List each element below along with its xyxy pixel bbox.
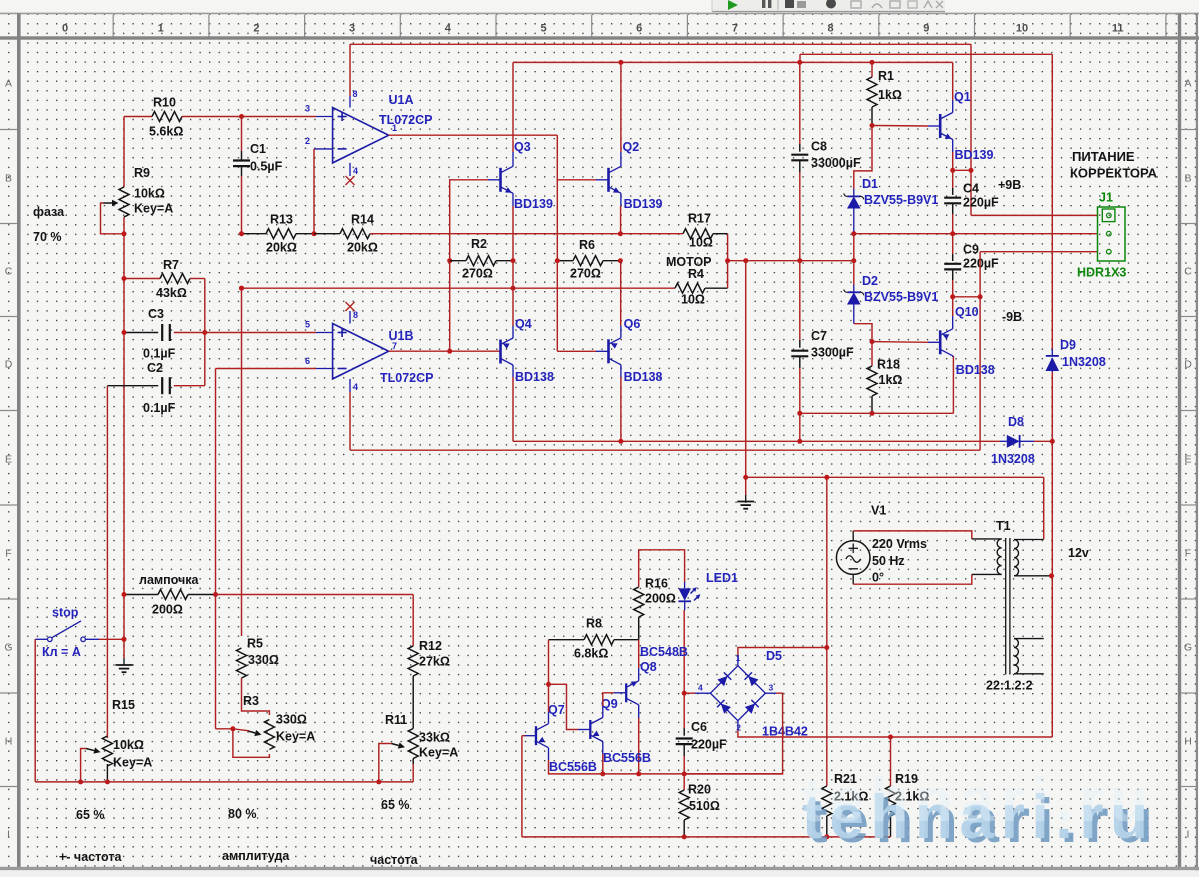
wire: Q6 collector	[620, 365, 622, 442]
svg-text:1kΩ: 1kΩ	[879, 373, 903, 387]
svg-text:BD139: BD139	[514, 197, 553, 211]
svg-text:220 Vrms: 220 Vrms	[872, 537, 927, 551]
svg-text:Key=A: Key=A	[134, 202, 173, 216]
svg-text:R18: R18	[877, 358, 900, 372]
watermark tehnari.ru	[802, 766, 1155, 856]
svg-text:4: 4	[445, 23, 452, 35]
transformer T1	[986, 519, 1052, 693]
svg-text:Q8: Q8	[640, 660, 657, 674]
capacitor C7	[791, 261, 854, 414]
svg-text:1: 1	[392, 123, 397, 133]
svg-text:V1: V1	[871, 504, 886, 518]
wire: switch to ground node	[99, 637, 127, 642]
node: D8-D9 junction	[1050, 439, 1055, 444]
svg-text:I: I	[7, 829, 10, 841]
svg-text:2: 2	[253, 23, 259, 35]
svg-text:R6: R6	[579, 238, 595, 252]
wire: Q3 emitter	[512, 193, 514, 260]
svg-text:5: 5	[305, 320, 310, 330]
wire: U1A + input	[242, 104, 333, 117]
label +- частота	[59, 850, 122, 864]
svg-text:J1: J1	[1099, 191, 1113, 205]
wire: Q1 collector	[952, 62, 954, 112]
svg-text:Q2: Q2	[623, 140, 640, 154]
sheet top edge line	[0, 12, 1199, 14]
svg-text:220µF: 220µF	[963, 257, 999, 271]
bottom margin strip	[0, 870, 1199, 877]
label МОТОР	[666, 255, 712, 269]
svg-text:2: 2	[736, 723, 741, 733]
svg-text:3: 3	[349, 23, 355, 35]
resistor R18	[867, 342, 902, 416]
wire: Q4 collector	[512, 365, 514, 441]
svg-text:R16: R16	[645, 577, 668, 591]
wire: R8 left drop	[546, 640, 551, 687]
svg-text:BC548B: BC548B	[640, 645, 688, 659]
svg-text:C9: C9	[963, 243, 979, 257]
svg-text:ПИТАНИЕ: ПИТАНИЕ	[1072, 149, 1135, 164]
wire: Q4 emitter	[512, 261, 514, 338]
svg-text:65 %: 65 %	[381, 798, 410, 812]
svg-text:R5: R5	[247, 637, 263, 651]
svg-text:D2: D2	[862, 274, 878, 288]
svg-text:Q10: Q10	[955, 305, 979, 319]
svg-text:7: 7	[732, 23, 738, 35]
wire: Q7 emitter	[549, 748, 603, 774]
svg-text:BD138: BD138	[515, 370, 554, 384]
svg-text:R12: R12	[419, 639, 442, 653]
svg-text:Q4: Q4	[515, 317, 532, 331]
right border band	[1178, 13, 1181, 869]
svg-text:C7: C7	[811, 329, 827, 343]
wire: Q2 collector	[620, 62, 622, 166]
wire: U1A output	[389, 123, 558, 135]
svg-text:D: D	[5, 359, 13, 371]
svg-text:фаза: фаза	[33, 205, 65, 219]
wire: Q9 collector	[603, 693, 626, 718]
node: C1 bottom junction	[239, 286, 244, 291]
capacitor C2	[107, 361, 204, 415]
svg-text:0.5µF: 0.5µF	[250, 160, 283, 174]
svg-text:LED1: LED1	[706, 571, 738, 585]
svg-text:10kΩ: 10kΩ	[134, 187, 165, 201]
pin: U1A pin4 no-connect	[346, 163, 359, 185]
svg-text:U1A: U1A	[389, 93, 414, 107]
svg-text:частота: частота	[370, 853, 419, 867]
svg-text:BD139: BD139	[955, 148, 994, 162]
wire: Q2 emitter	[620, 193, 622, 233]
svg-text:2: 2	[305, 136, 310, 146]
svg-text:B: B	[1184, 173, 1191, 185]
resistor R20	[679, 774, 720, 840]
svg-text:H: H	[1184, 736, 1192, 748]
wire: U1A - input	[305, 136, 333, 234]
capacitor C1	[233, 117, 283, 234]
svg-text:G: G	[4, 642, 12, 654]
resistor R1	[867, 62, 902, 128]
potentiometer R11	[376, 713, 458, 784]
svg-text:33kΩ: 33kΩ	[419, 731, 450, 745]
toolbar fragment	[712, 0, 945, 12]
bottom border band	[0, 867, 1199, 870]
svg-text:1N3208: 1N3208	[1062, 355, 1106, 369]
capacitor C4	[944, 170, 999, 233]
label фаза	[33, 205, 65, 219]
svg-text:BZV55-B9V1: BZV55-B9V1	[864, 290, 938, 304]
pin: U1B pin8 no-connect	[346, 302, 359, 324]
wire: Q6 emitter	[620, 261, 622, 338]
wire: C4 top link	[953, 169, 971, 171]
svg-text:D9: D9	[1060, 338, 1076, 352]
bridge rectifier D5	[698, 649, 808, 739]
svg-text:200Ω: 200Ω	[645, 592, 676, 606]
ruler band below numbers	[0, 36, 1199, 39]
svg-text:Key=A: Key=A	[419, 746, 458, 760]
wire: U1A pin8 to +rail	[350, 44, 358, 107]
svg-text:BZV55-B9V1: BZV55-B9V1	[864, 193, 938, 207]
svg-text:70 %: 70 %	[33, 230, 62, 244]
transistor Q9	[590, 697, 651, 765]
svg-text:4: 4	[353, 382, 358, 392]
svg-text:C: C	[5, 266, 13, 278]
label амплитуда	[222, 849, 290, 863]
svg-text:Q1: Q1	[954, 90, 971, 104]
potentiometer R9	[101, 166, 174, 234]
wire: J1 pin1 net	[971, 214, 1098, 216]
svg-text:HDR1X3: HDR1X3	[1077, 266, 1126, 280]
wire: Q10 emitter	[952, 297, 954, 329]
svg-text:BD138: BD138	[624, 370, 663, 384]
wire: Q3 collector	[512, 62, 514, 166]
transistor Q6	[609, 317, 663, 384]
svg-text:BD139: BD139	[624, 197, 663, 211]
node: output feedback junction	[618, 231, 623, 236]
node: T1 secondary tap junction	[1049, 573, 1054, 578]
source V1	[836, 504, 927, 585]
diode D1 zener	[844, 177, 939, 234]
svg-text:I: I	[1187, 829, 1190, 841]
wire: bridge pin3	[684, 693, 782, 774]
wire: Q10 base	[872, 341, 940, 344]
wire: bridge pin4	[682, 691, 711, 696]
svg-text:B: B	[5, 173, 12, 185]
svg-text:F: F	[5, 548, 11, 560]
transistor Q1	[940, 90, 993, 162]
svg-text:270Ω: 270Ω	[462, 267, 493, 281]
svg-text:E: E	[1184, 454, 1191, 466]
svg-text:TL072CP: TL072CP	[380, 371, 434, 385]
svg-text:Q3: Q3	[514, 140, 531, 154]
svg-text:0.1µF: 0.1µF	[143, 401, 176, 415]
svg-text:G: G	[1184, 642, 1192, 654]
resistor лампочка 200Ω	[122, 573, 219, 617]
svg-text:T1: T1	[996, 519, 1011, 533]
wire: V1 loop top rail	[746, 475, 1044, 540]
connector J1	[1077, 191, 1126, 280]
resistor R2	[450, 237, 516, 281]
capacitor C3	[122, 307, 205, 361]
wire: bridge pin2	[738, 721, 1052, 740]
svg-text:R8: R8	[586, 617, 602, 631]
wire: bottom-left rail	[35, 781, 413, 783]
svg-text:0.1µF: 0.1µF	[143, 347, 176, 361]
svg-text:43kΩ: 43kΩ	[156, 286, 187, 300]
svg-text:-9B: -9B	[1002, 310, 1022, 324]
svg-text:R13: R13	[270, 213, 293, 227]
svg-text:220µF: 220µF	[691, 738, 727, 752]
svg-text:6.8kΩ: 6.8kΩ	[574, 647, 608, 661]
svg-text:C: C	[1184, 266, 1192, 278]
wire: Q8 collector	[638, 705, 640, 774]
svg-text:10: 10	[1016, 23, 1028, 35]
wire: V1 loop left vertical	[824, 477, 829, 650]
svg-text:8: 8	[353, 310, 358, 320]
transistor Q8	[626, 645, 688, 705]
label 65 % (R11)	[381, 798, 410, 812]
svg-text:65 %: 65 %	[76, 808, 105, 822]
svg-text:R1: R1	[878, 69, 894, 83]
svg-text:6: 6	[636, 23, 642, 35]
svg-text:22:1.2:2: 22:1.2:2	[986, 679, 1033, 693]
wire: C2 left drop to R15	[106, 386, 108, 738]
svg-text:3: 3	[305, 104, 310, 114]
svg-text:330Ω: 330Ω	[248, 653, 279, 667]
wire: R18 bottom row	[797, 356, 953, 416]
wire: J1 pin3 net	[980, 252, 1097, 451]
svg-text:R11: R11	[385, 713, 407, 727]
capacitor C8	[791, 62, 861, 260]
svg-text:20kΩ: 20kΩ	[347, 241, 378, 255]
svg-text:BC556B: BC556B	[549, 760, 597, 774]
svg-text:11: 11	[1112, 23, 1124, 35]
svg-text:220µF: 220µF	[963, 196, 999, 210]
wire: Q7 collector	[548, 684, 550, 723]
svg-text:9: 9	[923, 23, 929, 35]
svg-text:8: 8	[353, 89, 358, 99]
wire: Q10 collector	[952, 356, 954, 357]
svg-text:R20: R20	[688, 783, 711, 797]
svg-text:330Ω: 330Ω	[276, 713, 307, 727]
resistor R16	[634, 550, 685, 640]
svg-text:5.6kΩ: 5.6kΩ	[149, 125, 183, 139]
svg-text:50 Hz: 50 Hz	[872, 554, 905, 568]
wire: Q9 emitter	[600, 742, 605, 777]
potentiometer R3	[216, 678, 316, 757]
resistor R7	[122, 258, 205, 300]
resistor R19	[886, 737, 930, 837]
wire: U1B out to Q3 base column	[447, 180, 500, 351]
label ПИТАНИЕ КОРРЕКТОРА	[1070, 149, 1158, 181]
capacitor C6	[676, 693, 727, 774]
resistor R4	[239, 261, 728, 307]
svg-text:R2: R2	[471, 237, 487, 251]
op-amp U1B	[333, 324, 434, 386]
svg-text:R7: R7	[163, 258, 179, 272]
wire: D1 feed jog	[854, 126, 872, 190]
wire: lamp to R12	[216, 594, 414, 596]
svg-text:R15: R15	[112, 698, 135, 712]
svg-text:8: 8	[828, 23, 834, 35]
wire: U1B- column x=215.5	[215, 369, 217, 729]
label 65 %	[76, 808, 105, 822]
transistor Q7	[536, 703, 597, 774]
resistor R8	[549, 617, 639, 661]
ground symbol (left)	[116, 639, 133, 672]
wire: D2 to R18/Q10 jog	[854, 324, 875, 344]
svg-text:6: 6	[305, 356, 310, 366]
svg-text:7: 7	[392, 341, 397, 351]
wire: +9V top rail	[350, 44, 974, 215]
resistor R14	[314, 213, 620, 255]
LED LED1	[678, 571, 738, 610]
wire: wire2 (op-amp V-)	[350, 449, 980, 451]
top ruler scale	[62, 15, 1166, 37]
svg-text:R9: R9	[134, 166, 150, 180]
svg-text:Key=A: Key=A	[113, 756, 152, 770]
svg-text:C6: C6	[691, 720, 707, 734]
svg-text:80 %: 80 %	[228, 807, 257, 821]
wire: U1B + input lead	[305, 320, 333, 333]
resistor R21	[822, 648, 869, 840]
svg-text:+9B: +9B	[998, 178, 1021, 192]
ground symbol (center)	[737, 261, 754, 509]
switch Кл=А	[35, 606, 99, 660]
wire: R7 right vertical x=204.8	[202, 279, 207, 386]
svg-text:E: E	[5, 454, 12, 466]
svg-text:0: 0	[62, 23, 68, 35]
resistor R13	[239, 213, 317, 255]
wire: Q1 base	[872, 125, 940, 128]
label -9B	[1002, 310, 1022, 324]
node: C9 bottom junction	[950, 294, 982, 299]
wire: wire1 (negative rail)	[513, 413, 1000, 444]
svg-text:1: 1	[158, 23, 164, 35]
svg-text:27kΩ: 27kΩ	[419, 655, 450, 669]
svg-text:H: H	[5, 736, 13, 748]
resistor R10	[124, 96, 242, 139]
svg-text:A: A	[1184, 78, 1191, 90]
wire: V1 to T1 primary top	[853, 531, 1001, 539]
svg-text:Q6: Q6	[624, 317, 641, 331]
svg-text:Key=A: Key=A	[276, 730, 315, 744]
diode D2 zener	[844, 261, 939, 324]
svg-text:4: 4	[698, 683, 703, 693]
svg-text:A: A	[5, 78, 12, 90]
svg-text:270Ω: 270Ω	[570, 267, 601, 281]
svg-text:4: 4	[353, 166, 358, 176]
svg-text:1kΩ: 1kΩ	[878, 88, 902, 102]
resistor R6	[555, 238, 623, 281]
label частота	[370, 853, 419, 867]
diode D9	[1046, 338, 1106, 372]
wire: emitter row y=773.9	[603, 771, 783, 776]
svg-text:20kΩ: 20kΩ	[266, 241, 297, 255]
op-amp U1A	[333, 93, 433, 163]
resistor R17	[620, 212, 727, 261]
wire: V1 to T1 primary bottom	[853, 574, 1001, 584]
label 12v	[1068, 546, 1089, 560]
svg-text:C8: C8	[811, 140, 827, 154]
svg-text:R14: R14	[351, 213, 374, 227]
svg-text:КОРРЕКТОРА: КОРРЕКТОРА	[1070, 166, 1158, 181]
wire: U1B - input	[216, 356, 333, 369]
wire: right tall vertical	[1051, 54, 1053, 737]
svg-text:D: D	[1184, 359, 1192, 371]
svg-text:10Ω: 10Ω	[681, 293, 705, 307]
svg-text:C2: C2	[147, 361, 163, 375]
svg-text:R17: R17	[688, 212, 711, 226]
wire: switch left drop	[34, 639, 36, 782]
label 80 %	[228, 807, 257, 821]
svg-text:+- частота: +- частота	[59, 850, 122, 864]
label +9B	[998, 178, 1021, 192]
wire: bridge pin1	[738, 648, 827, 666]
label 70 %	[33, 230, 62, 244]
wire: Q8 emitter	[638, 640, 640, 681]
svg-text:амплитуда: амплитуда	[222, 849, 290, 863]
left border band	[17, 13, 21, 869]
svg-text:33000µF: 33000µF	[811, 156, 861, 170]
svg-text:C4: C4	[963, 182, 979, 196]
transistor Q4	[501, 317, 554, 384]
svg-text:BC556B: BC556B	[603, 751, 651, 765]
wire: motor net right segment	[725, 258, 856, 263]
svg-text:12v: 12v	[1068, 546, 1089, 560]
node: R9 wiper junction	[122, 231, 127, 236]
svg-text:D5: D5	[766, 649, 782, 663]
svg-text:R4: R4	[688, 267, 704, 281]
svg-text:Q7: Q7	[548, 703, 565, 717]
wire: U1B pin4 to wire2	[350, 379, 358, 450]
wire: U1B output	[389, 341, 501, 354]
svg-text:0°: 0°	[872, 571, 884, 585]
capacitor C9	[944, 234, 999, 297]
resistor R5	[237, 288, 279, 678]
svg-text:510Ω: 510Ω	[689, 799, 720, 813]
wire: U1A out to Q2/Q6 bases	[557, 135, 608, 351]
wire: Q9 base link	[549, 684, 591, 729]
potentiometer R15	[78, 698, 152, 784]
wire: Q1 emitter	[950, 140, 955, 173]
svg-text:stop: stop	[52, 606, 79, 620]
svg-text:F: F	[1185, 548, 1191, 560]
wire: C3 to U1B+ input	[205, 332, 316, 334]
svg-text:C3: C3	[148, 307, 164, 321]
wire: bottom rail	[522, 836, 891, 838]
wire: J1 middle net	[854, 231, 1098, 236]
right outer edge line	[1196, 13, 1198, 876]
svg-text:10kΩ: 10kΩ	[113, 738, 144, 752]
node: D1-D2 junction	[851, 231, 856, 261]
wire: LED to bridge pin4	[683, 610, 685, 693]
transistor Q2	[609, 140, 663, 211]
svg-text:C1: C1	[250, 142, 266, 156]
svg-text:Кл = А: Кл = А	[42, 645, 81, 659]
resistor R12	[408, 595, 450, 729]
diode D8	[991, 415, 1052, 466]
wire: collector rail y=62.4	[513, 60, 953, 65]
svg-text:TL072CP: TL072CP	[379, 113, 433, 127]
svg-text:1N3208: 1N3208	[991, 452, 1035, 466]
wire: left column vertical x=124	[123, 117, 125, 640]
transistor Q10	[940, 305, 995, 377]
svg-text:R3: R3	[243, 694, 259, 708]
svg-text:лампочка: лампочка	[139, 573, 200, 587]
svg-text:D8: D8	[1008, 415, 1024, 429]
svg-text:R10: R10	[153, 96, 176, 110]
svg-text:tehnari.ru: tehnari.ru	[802, 766, 1150, 835]
svg-text:BD138: BD138	[956, 363, 995, 377]
